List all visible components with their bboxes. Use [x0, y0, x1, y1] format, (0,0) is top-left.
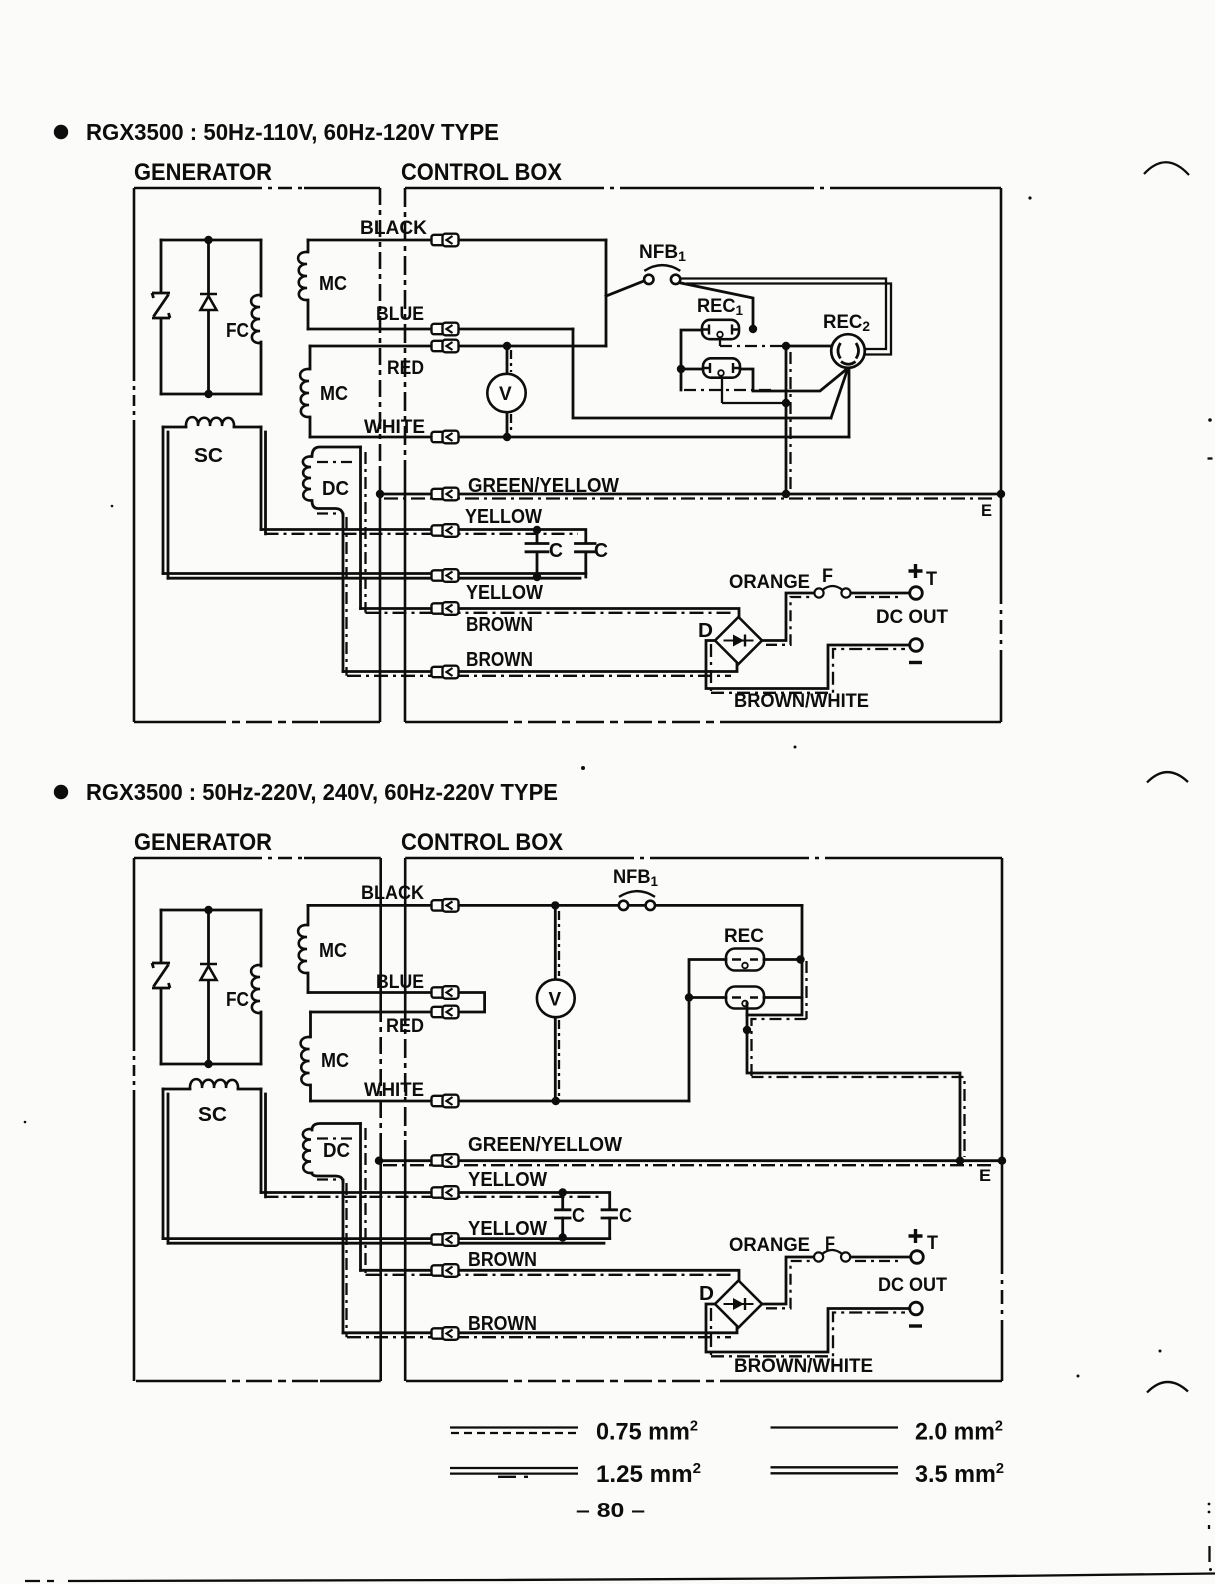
svg-text:C: C: [549, 540, 563, 562]
svg-text:SC: SC: [194, 445, 223, 467]
svg-text:FC: FC: [226, 320, 249, 342]
svg-text:RED: RED: [387, 358, 424, 379]
svg-text:FC: FC: [226, 989, 249, 1011]
svg-text:CONTROL BOX: CONTROL BOX: [401, 159, 563, 186]
svg-text:RED: RED: [386, 1016, 424, 1037]
svg-text:GENERATOR: GENERATOR: [134, 829, 272, 856]
svg-text:MC: MC: [319, 940, 347, 962]
svg-text:MC: MC: [320, 383, 348, 405]
svg-text:YELLOW: YELLOW: [466, 582, 543, 604]
svg-text:T: T: [926, 569, 937, 590]
svg-text:D: D: [698, 620, 713, 642]
svg-text:SC: SC: [198, 1104, 227, 1126]
svg-text:RGX3500 : 50Hz-110V, 60Hz-120V: RGX3500 : 50Hz-110V, 60Hz-120V TYPE: [86, 119, 499, 145]
svg-text:REC: REC: [724, 926, 764, 947]
svg-text:YELLOW: YELLOW: [465, 506, 542, 528]
svg-text:F: F: [825, 1234, 835, 1255]
svg-text:YELLOW: YELLOW: [468, 1218, 547, 1240]
svg-text:BROWN: BROWN: [468, 1249, 537, 1271]
svg-text:BLACK: BLACK: [361, 883, 424, 904]
svg-text:BLUE: BLUE: [376, 972, 424, 993]
svg-text:DC: DC: [322, 478, 349, 500]
svg-text:E: E: [979, 1166, 991, 1185]
svg-text:1.25 mm2: 1.25 mm2: [596, 1460, 701, 1488]
svg-text:0.75 mm2: 0.75 mm2: [596, 1418, 698, 1446]
svg-text:V: V: [499, 384, 512, 405]
svg-text:C: C: [594, 540, 608, 562]
svg-text:C: C: [619, 1205, 632, 1227]
svg-text:DC OUT: DC OUT: [878, 1275, 947, 1296]
svg-text:C: C: [572, 1205, 585, 1227]
svg-text:F: F: [822, 566, 833, 587]
svg-text:YELLOW: YELLOW: [468, 1169, 547, 1191]
svg-text:3.5 mm2: 3.5 mm2: [915, 1460, 1004, 1488]
svg-text:RGX3500 : 50Hz-220V, 240V, 60H: RGX3500 : 50Hz-220V, 240V, 60Hz-220V TYP…: [86, 779, 558, 805]
svg-text:ORANGE: ORANGE: [729, 572, 810, 593]
svg-text:V: V: [549, 990, 562, 1011]
svg-text:GREEN/YELLOW: GREEN/YELLOW: [468, 475, 619, 497]
svg-text:CONTROL BOX: CONTROL BOX: [401, 829, 564, 856]
svg-text:DC OUT: DC OUT: [876, 607, 948, 628]
svg-text:BROWN: BROWN: [466, 614, 533, 636]
svg-text:WHITE: WHITE: [364, 1080, 424, 1101]
svg-text:WHITE: WHITE: [364, 417, 425, 438]
svg-text:D: D: [699, 1283, 714, 1305]
svg-text:BROWN: BROWN: [466, 649, 533, 671]
svg-text:MC: MC: [319, 273, 347, 295]
svg-text:– 80 –: – 80 –: [576, 1500, 645, 1522]
svg-text:E: E: [981, 501, 992, 520]
svg-text:BROWN/WHITE: BROWN/WHITE: [734, 1356, 873, 1377]
svg-text:BROWN/WHITE: BROWN/WHITE: [734, 691, 869, 712]
svg-text:GREEN/YELLOW: GREEN/YELLOW: [468, 1134, 622, 1156]
svg-text:ORANGE: ORANGE: [729, 1235, 810, 1256]
svg-text:MC: MC: [321, 1050, 349, 1072]
svg-text:2.0 mm2: 2.0 mm2: [915, 1418, 1003, 1446]
svg-text:T: T: [927, 1233, 938, 1254]
svg-text:BLUE: BLUE: [376, 304, 424, 325]
svg-text:DC: DC: [323, 1140, 350, 1162]
svg-text:GENERATOR: GENERATOR: [134, 159, 272, 186]
svg-text:BLACK: BLACK: [360, 218, 427, 239]
svg-text:BROWN: BROWN: [468, 1313, 537, 1335]
